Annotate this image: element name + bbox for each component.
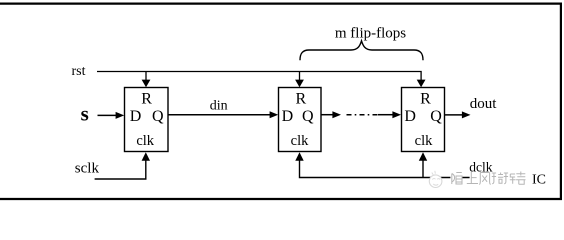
pin R of U1 (141, 91, 152, 108)
svg-text:R: R (141, 91, 152, 108)
wire sclk to U1 clk (95, 152, 150, 179)
pin clk of U2 (291, 133, 309, 149)
flip-flop U2 (279, 88, 322, 152)
wire dclk branch to U3 clk (419, 152, 427, 177)
wire rst drop to U2 R pin (295, 72, 304, 88)
svg-text:IC: IC (532, 172, 546, 187)
pin Q of U2 (302, 108, 314, 125)
flip-flop U3 (402, 88, 445, 152)
svg-text:Q: Q (302, 108, 314, 125)
label s input (81, 102, 89, 126)
svg-text:R: R (420, 91, 431, 108)
svg-text:D: D (130, 108, 142, 125)
svg-text:m flip-flops: m flip-flops (335, 26, 406, 42)
pin Q of U3 (430, 108, 442, 125)
label sclk (75, 161, 100, 177)
svg-text:clk: clk (136, 133, 154, 149)
pin D of U3 (404, 108, 416, 125)
wire dclk net (300, 161, 471, 178)
pin D of U2 (282, 108, 294, 125)
pin clk of U3 (415, 133, 433, 149)
pin D of U1 (130, 108, 142, 125)
svg-text:Q: Q (152, 108, 164, 125)
label m flip-flops (335, 26, 406, 42)
svg-text:R: R (295, 91, 306, 108)
svg-text:clk: clk (291, 133, 309, 149)
svg-text:rst: rst (72, 64, 86, 79)
svg-text:sclk: sclk (75, 161, 100, 177)
svg-text:D: D (282, 108, 294, 125)
svg-text:dout: dout (470, 96, 498, 112)
char mo (452, 173, 462, 185)
wire rst drop to U3 R pin (417, 80, 426, 88)
label dout (470, 96, 498, 112)
wire din U1 Q to U2 D (168, 111, 278, 118)
wire rst net (97, 72, 421, 81)
wire into U3 D with arrow (378, 111, 401, 118)
pin R of U3 (420, 91, 431, 108)
label dclk (469, 160, 492, 175)
label rst (72, 64, 86, 79)
char kan (516, 172, 525, 185)
wire dclk arrow into U2 clk (295, 152, 303, 160)
watermark text (450, 171, 546, 187)
brace m flip-flops span (300, 41, 423, 60)
wire s to U1 D pin (98, 112, 125, 119)
wire rst drop to U1 R pin (142, 72, 151, 88)
label din net (210, 98, 228, 113)
wire dash-dot continuation (347, 114, 378, 116)
flip-flop U1 (125, 88, 169, 152)
pin clk of U1 (136, 133, 154, 149)
char feng (479, 173, 490, 185)
svg-text:D: D (404, 108, 416, 125)
svg-text:Q: Q (430, 108, 442, 125)
char shang (467, 172, 478, 184)
wire dout from U3 Q (445, 111, 471, 118)
wire U2 Q stub with arrow (321, 111, 341, 118)
char qi (492, 173, 504, 184)
svg-text:din: din (210, 98, 228, 113)
pin Q of U1 (152, 108, 164, 125)
watermark logo (429, 171, 442, 188)
pin R of U2 (295, 91, 306, 108)
svg-text:clk: clk (415, 133, 433, 149)
char lv (504, 173, 516, 184)
svg-text:s: s (81, 102, 89, 126)
